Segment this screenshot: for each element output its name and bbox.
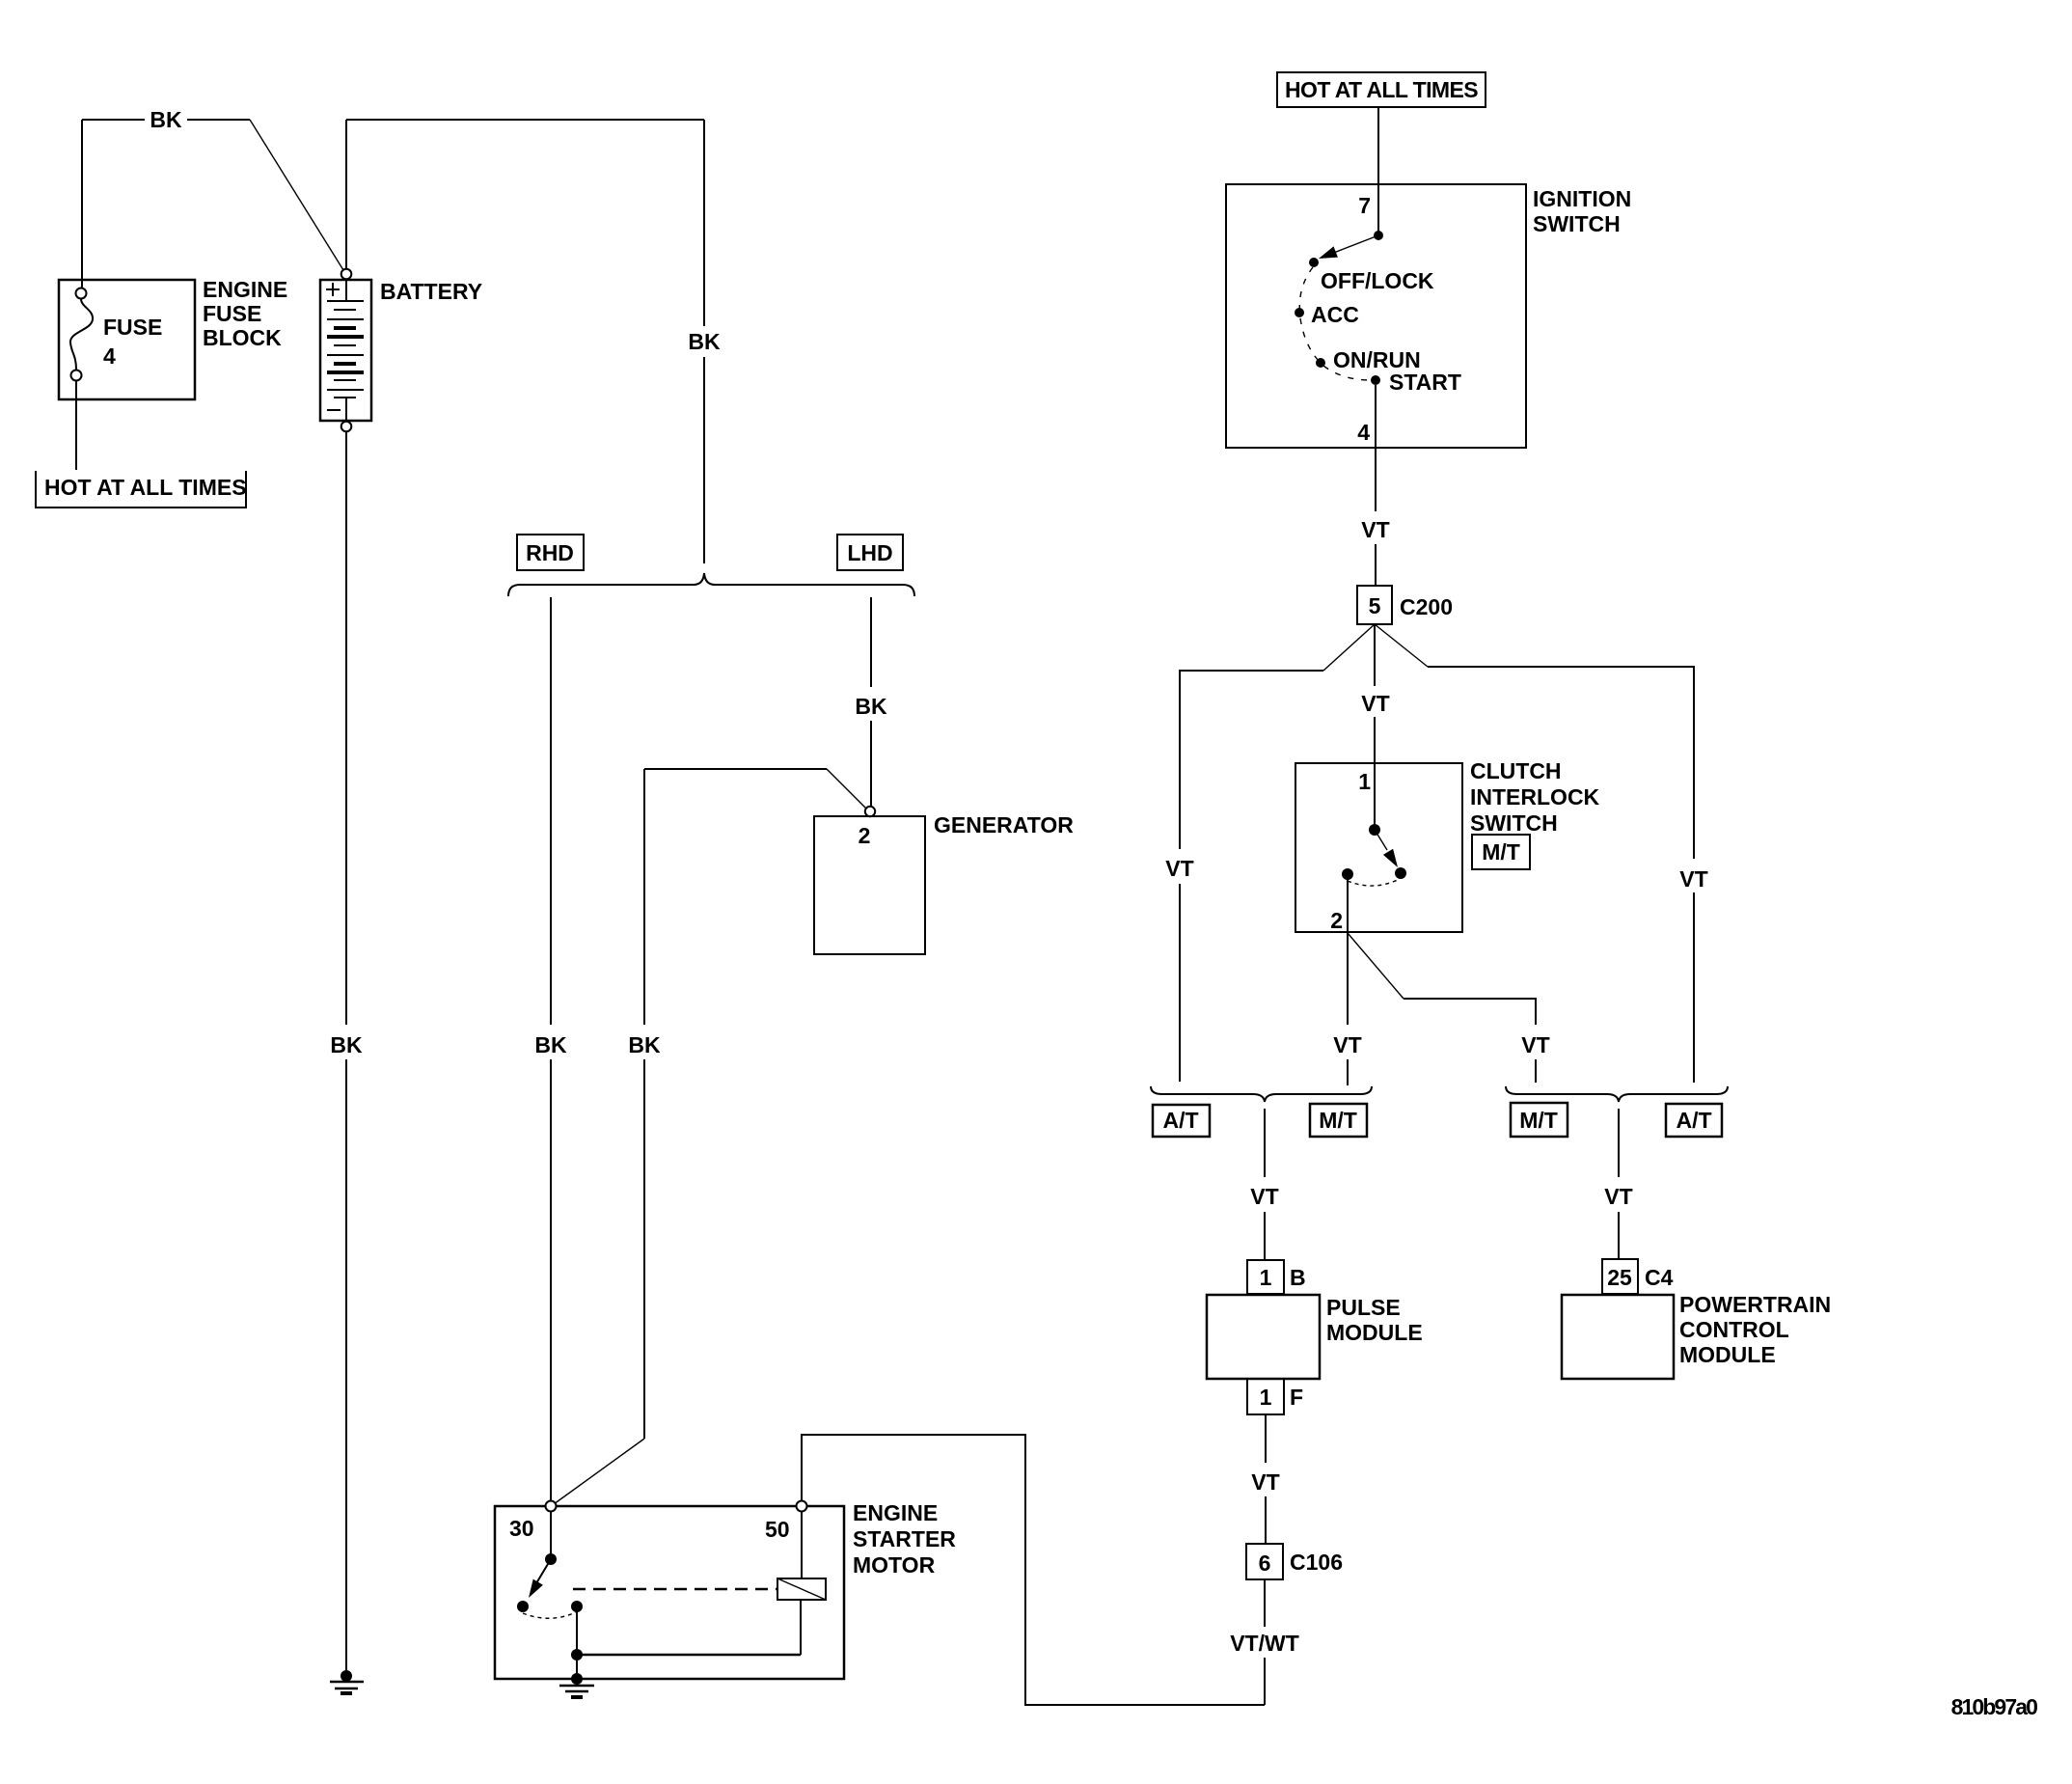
svg-text:BATTERY: BATTERY	[380, 279, 482, 304]
svg-text:IGNITION: IGNITION	[1533, 186, 1631, 211]
svg-text:M/T: M/T	[1482, 839, 1520, 865]
svg-text:MOTOR: MOTOR	[853, 1552, 936, 1578]
svg-text:MODULE: MODULE	[1326, 1320, 1423, 1345]
svg-text:2: 2	[1330, 908, 1343, 933]
svg-text:A/T: A/T	[1676, 1108, 1711, 1133]
svg-text:BK: BK	[855, 694, 887, 719]
svg-text:VT: VT	[1679, 866, 1707, 892]
svg-text:30: 30	[509, 1516, 534, 1541]
svg-text:START: START	[1389, 370, 1461, 395]
svg-text:4: 4	[103, 343, 116, 369]
svg-text:VT: VT	[1333, 1032, 1361, 1057]
svg-text:HOT AT ALL TIMES: HOT AT ALL TIMES	[1285, 77, 1478, 102]
svg-text:F: F	[1290, 1385, 1303, 1410]
svg-text:LHD: LHD	[847, 540, 892, 565]
svg-text:INTERLOCK: INTERLOCK	[1470, 784, 1600, 810]
svg-text:BK: BK	[534, 1032, 567, 1057]
svg-text:BK: BK	[150, 107, 182, 132]
svg-text:50: 50	[765, 1517, 790, 1542]
svg-text:RHD: RHD	[526, 540, 574, 565]
svg-text:C200: C200	[1400, 594, 1453, 619]
svg-text:VT: VT	[1361, 517, 1389, 542]
svg-text:M/T: M/T	[1519, 1108, 1558, 1133]
svg-text:ACC: ACC	[1311, 302, 1359, 327]
svg-text:VT: VT	[1251, 1469, 1279, 1495]
svg-text:M/T: M/T	[1319, 1108, 1357, 1133]
svg-text:VT: VT	[1250, 1184, 1278, 1209]
svg-text:HOT AT ALL TIMES: HOT AT ALL TIMES	[44, 475, 247, 500]
svg-text:1: 1	[1358, 769, 1371, 794]
svg-text:CLUTCH: CLUTCH	[1470, 758, 1562, 783]
svg-text:CONTROL: CONTROL	[1679, 1317, 1789, 1342]
svg-text:VT: VT	[1165, 856, 1193, 881]
svg-text:FUSE: FUSE	[103, 315, 162, 340]
svg-text:ENGINE: ENGINE	[853, 1500, 938, 1525]
svg-text:VT: VT	[1521, 1032, 1549, 1057]
svg-text:4: 4	[1357, 420, 1370, 445]
svg-text:MODULE: MODULE	[1679, 1342, 1776, 1367]
svg-text:GENERATOR: GENERATOR	[934, 812, 1074, 837]
svg-text:OFF/LOCK: OFF/LOCK	[1321, 268, 1434, 293]
svg-text:6: 6	[1259, 1551, 1271, 1576]
svg-text:25: 25	[1607, 1265, 1632, 1290]
svg-text:BK: BK	[628, 1032, 661, 1057]
svg-text:VT: VT	[1361, 691, 1389, 716]
svg-text:STARTER: STARTER	[853, 1526, 956, 1551]
svg-text:B: B	[1290, 1265, 1306, 1290]
svg-text:C4: C4	[1645, 1265, 1674, 1290]
svg-text:1: 1	[1260, 1265, 1272, 1290]
svg-text:C106: C106	[1290, 1550, 1343, 1575]
svg-text:BLOCK: BLOCK	[203, 325, 282, 350]
svg-text:7: 7	[1358, 193, 1371, 218]
svg-text:1: 1	[1260, 1385, 1272, 1410]
svg-text:PULSE: PULSE	[1326, 1295, 1401, 1320]
svg-text:BK: BK	[330, 1032, 363, 1057]
svg-text:FUSE: FUSE	[203, 301, 261, 326]
svg-text:5: 5	[1369, 593, 1381, 618]
svg-text:BK: BK	[688, 329, 721, 354]
svg-text:ENGINE: ENGINE	[203, 277, 287, 302]
svg-text:SWITCH: SWITCH	[1470, 810, 1558, 836]
svg-text:2: 2	[859, 823, 871, 848]
svg-text:A/T: A/T	[1162, 1108, 1198, 1133]
svg-text:POWERTRAIN: POWERTRAIN	[1679, 1292, 1831, 1317]
svg-text:SWITCH: SWITCH	[1533, 211, 1621, 236]
svg-text:810b97a0: 810b97a0	[1951, 1694, 2037, 1719]
svg-text:VT/WT: VT/WT	[1230, 1631, 1299, 1656]
svg-text:VT: VT	[1604, 1184, 1632, 1209]
